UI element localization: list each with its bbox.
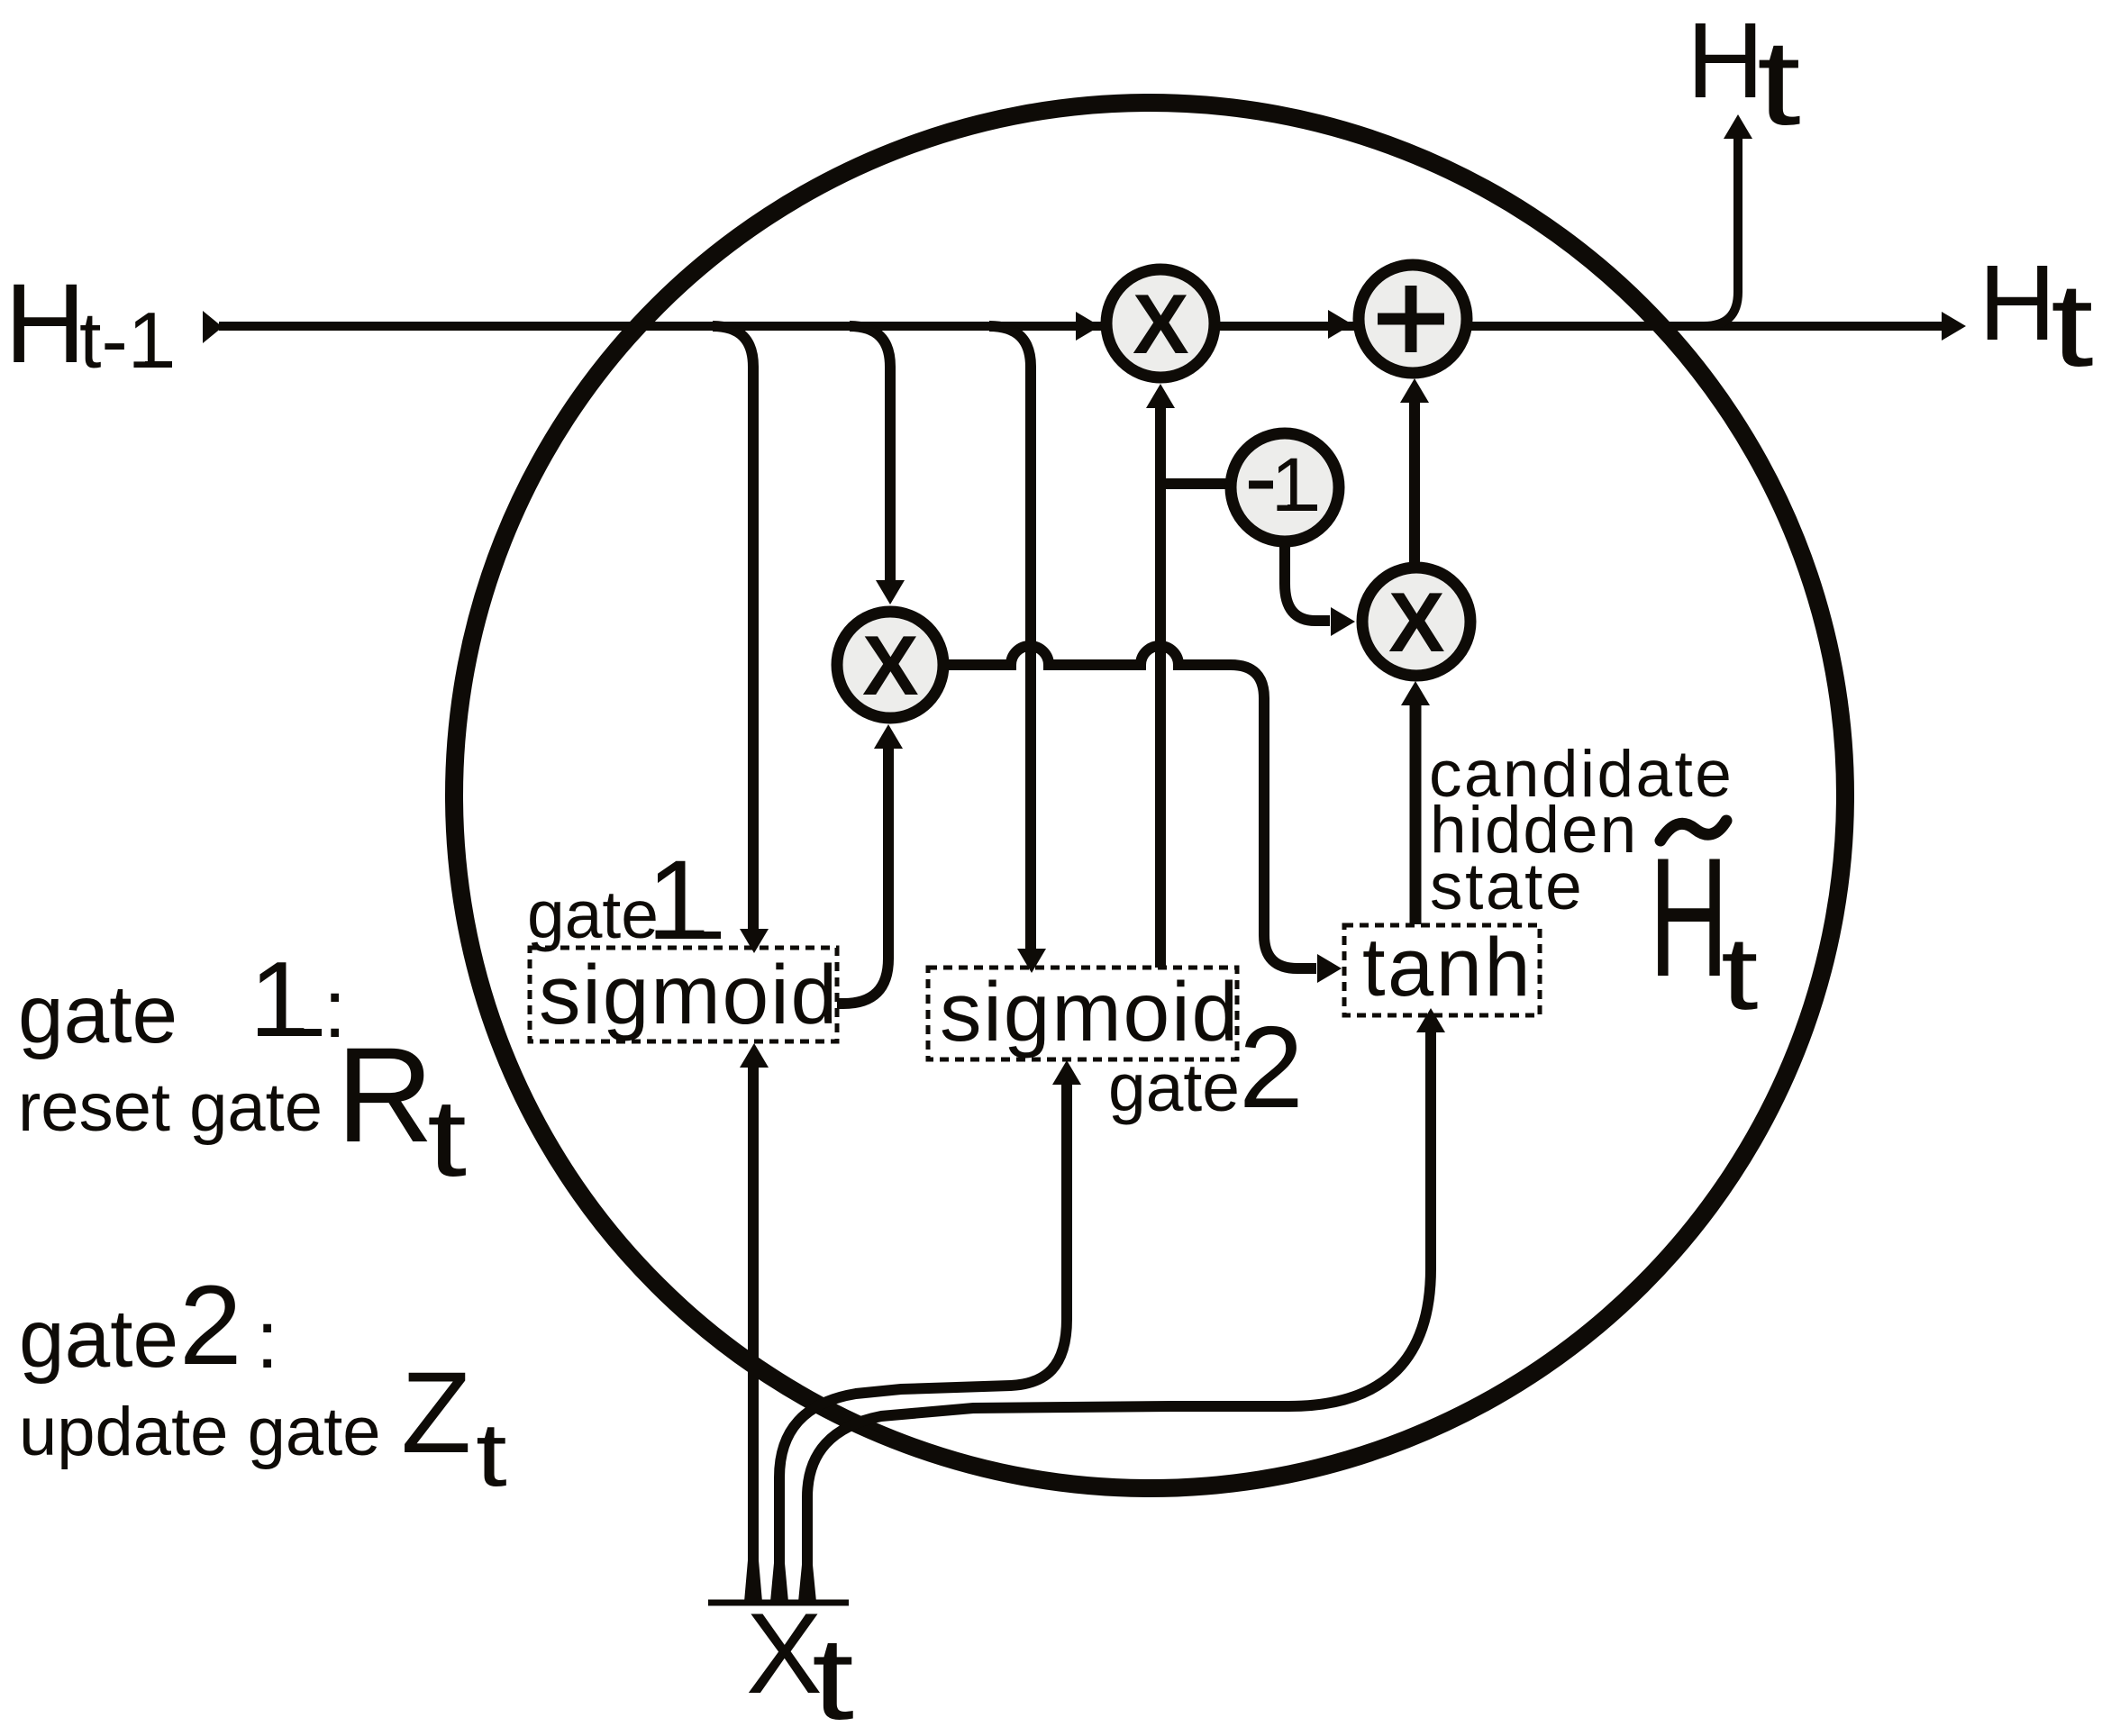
svg-text:t: t <box>427 1077 467 1199</box>
svg-text:2: 2 <box>179 1263 242 1388</box>
gate 2 sigmoid box <box>928 965 1240 1059</box>
wire: gate1 output curving up into X2 <box>837 749 888 1004</box>
label H-tilde with subscript t <box>1649 821 1759 1032</box>
wire: X3 output up into plus node <box>1409 403 1420 564</box>
svg-text:tanh: tanh <box>1362 922 1533 1013</box>
svg-text:2: 2 <box>1239 1003 1304 1132</box>
label candidate hidden state <box>1429 738 1733 923</box>
label gate 2 below box <box>1108 1003 1304 1132</box>
svg-text:H: H <box>1687 1 1764 121</box>
svg-text:X: X <box>746 1589 823 1717</box>
wire: Xt curving right and up into tanh <box>807 1032 1431 1602</box>
svg-text:t: t <box>1757 14 1801 150</box>
svg-text:1: 1 <box>250 940 309 1059</box>
svg-text:X: X <box>862 618 919 713</box>
add node plus <box>1359 265 1467 373</box>
wire: Xt curving right and up into gate2 sigmoid <box>779 1085 1067 1602</box>
svg-text:t-1: t-1 <box>79 295 172 385</box>
svg-text::: : <box>256 1295 278 1386</box>
wire: drop C from main line down to sigmoid gate2 <box>989 326 1031 949</box>
wire: X2 output right with two hops then down into tanh <box>945 646 1316 968</box>
svg-text:H: H <box>1979 243 2056 363</box>
label gate 1 above box <box>527 838 721 963</box>
wire: stub from riser to -1 node <box>1160 478 1226 489</box>
svg-text:1: 1 <box>647 838 710 963</box>
label gate2: update gate Zt <box>19 1263 507 1504</box>
node Xt input label <box>746 1589 854 1736</box>
svg-text:sigmoid: sigmoid <box>940 965 1240 1059</box>
svg-text:t: t <box>812 1613 854 1736</box>
svg-text:gate: gate <box>19 1294 178 1385</box>
node Ht output label top <box>1687 1 1801 150</box>
svg-text:t: t <box>2051 259 2094 391</box>
constant node -1 <box>1231 433 1339 541</box>
svg-text:Z: Z <box>401 1349 471 1477</box>
svg-text:t: t <box>1721 916 1759 1032</box>
svg-text:reset gate: reset gate <box>18 1069 323 1146</box>
multiply node X1 (top, on main line) <box>1106 269 1215 377</box>
svg-text:t: t <box>476 1404 507 1504</box>
svg-text:gate: gate <box>18 969 177 1060</box>
svg-text:update gate: update gate <box>19 1394 381 1470</box>
GRU cell boundary circle <box>454 103 1845 1488</box>
node Ht-1 input label <box>5 261 172 386</box>
wire: tanh output up into X3 <box>1410 705 1422 924</box>
svg-text:X: X <box>1133 277 1189 371</box>
svg-text:H: H <box>1649 823 1729 1013</box>
node Ht output label right <box>1979 243 2094 391</box>
wire: arrowhead into X1 on main line <box>1076 312 1100 341</box>
svg-text:1: 1 <box>1271 442 1314 527</box>
multiply node X3 (right middle) <box>1362 568 1470 676</box>
svg-text:R: R <box>336 1019 433 1170</box>
wire: drop B from main line down to X2 <box>850 326 890 581</box>
svg-text:H: H <box>5 261 86 386</box>
wire: main horizontal line Ht-1 to Ht <box>203 311 223 343</box>
label gate1: reset gate Rt <box>18 940 467 1199</box>
gate 1 sigmoid box <box>530 948 839 1041</box>
wire: -1 node down and right into X3 <box>1285 547 1330 621</box>
wire: gate2 output riser up into X1 <box>1155 407 1166 968</box>
svg-text:state: state <box>1430 850 1584 923</box>
wire: drop A from main line down to sigmoid gate1 <box>713 326 753 929</box>
wire: arrowhead into plus node on main line <box>1328 310 1352 339</box>
Xt input bar <box>708 1600 849 1606</box>
tanh box <box>1344 922 1540 1015</box>
svg-text:gate: gate <box>1108 1050 1240 1125</box>
wire: Xt riser up into gate1 sigmoid <box>748 1068 759 1602</box>
multiply node X2 (middle) <box>837 612 943 718</box>
svg-text:gate: gate <box>527 877 659 952</box>
wire: Ht branch going up <box>1704 139 1738 326</box>
svg-text:X: X <box>1388 575 1445 669</box>
